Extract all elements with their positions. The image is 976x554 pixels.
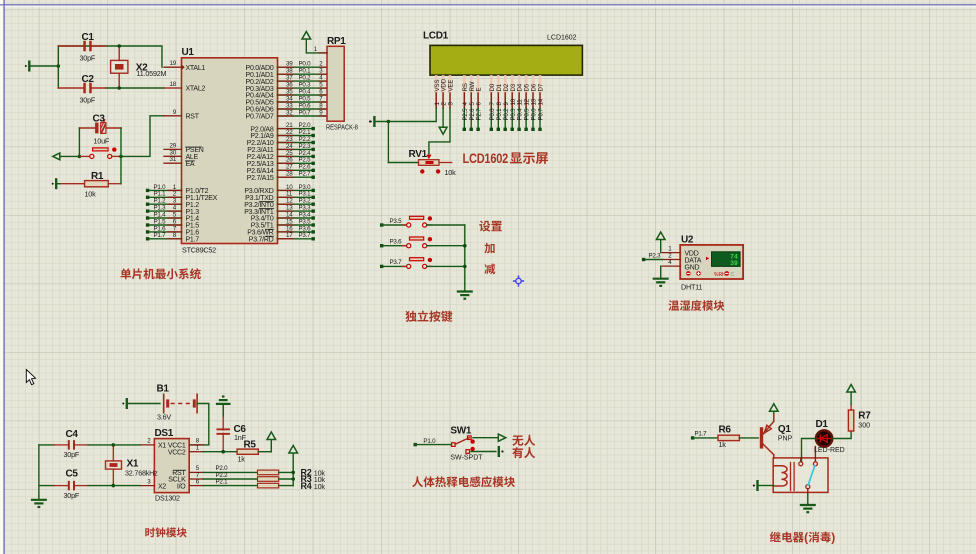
wire R7 to power (850, 405, 852, 411)
ground terminal left of LCD (373, 116, 375, 127)
pin P0.0 wire to RP1 (278, 66, 328, 68)
RP1 pin 1 wire to power (306, 39, 327, 53)
pin P1.5 wire and terminal (148, 224, 182, 226)
svg-text:33: 33 (286, 102, 293, 109)
svg-text:1k: 1k (719, 440, 727, 449)
power arrow above U2 (656, 232, 665, 240)
capacitor C5 (39, 485, 54, 487)
wire emitter to power (773, 414, 775, 422)
relay coil (774, 466, 782, 486)
svg-text:P1.4: P1.4 (186, 216, 200, 223)
pin P0.4 wire to RP1 (278, 94, 328, 96)
pin P0.7 wire to RP1 (278, 115, 328, 117)
overline INT0 (260, 201, 274, 203)
svg-text:P0.7/AD7: P0.7/AD7 (246, 114, 274, 121)
LCD pin D4 (518, 75, 521, 94)
LCD pin VSS (435, 75, 438, 94)
pin P1.4 wire and terminal (148, 217, 182, 219)
svg-text:DS1302: DS1302 (155, 494, 180, 503)
svg-text:14: 14 (538, 98, 545, 105)
svg-text:VDD: VDD (685, 250, 699, 257)
mouse cursor (26, 370, 35, 385)
pin P0.5 wire to RP1 (278, 101, 328, 103)
svg-text:P3.5: P3.5 (390, 218, 403, 225)
svg-text:X2: X2 (158, 483, 166, 490)
sheet border frame (0, 0, 3, 554)
svg-text:U1: U1 (182, 47, 195, 58)
wire VSS down to ground rail (376, 108, 436, 121)
capacitor C6 (216, 428, 230, 430)
temperature sensor U2 body (680, 245, 743, 279)
svg-text:): ) (831, 530, 835, 544)
svg-text:P3.7/RD: P3.7/RD (249, 237, 274, 244)
svg-text:RP1: RP1 (327, 36, 346, 47)
svg-text:P0.2/AD2: P0.2/AD2 (246, 79, 274, 86)
svg-text:P1.7: P1.7 (695, 431, 708, 438)
pin RST (164, 115, 182, 117)
label 时钟模块 (145, 527, 155, 537)
svg-text:P1.7: P1.7 (154, 232, 167, 239)
pin P2.0 wire and terminal (278, 128, 314, 130)
svg-text:37: 37 (286, 75, 293, 82)
pin P0.2 wire to RP1 (278, 80, 328, 82)
DS1 output wires to pull-ups (203, 471, 258, 473)
pin PSEN (164, 148, 182, 150)
svg-text:P3.4: P3.4 (299, 211, 312, 218)
resistor R5 (203, 451, 237, 453)
svg-text:P0.5: P0.5 (299, 95, 312, 102)
svg-text:XTAL2: XTAL2 (186, 86, 206, 93)
svg-text:C: C (731, 272, 735, 278)
capacitor C4 (39, 444, 54, 446)
svg-text:(: ( (804, 530, 808, 544)
pin P1.3 wire and terminal (148, 210, 182, 212)
wire rail down to RV1 (387, 122, 389, 163)
pin P0.6 wire to RP1 (278, 108, 328, 110)
bar terminal 有人 (498, 446, 500, 457)
buttons common wire to ground (464, 225, 466, 284)
LCD pin VEE (449, 75, 452, 94)
svg-text:LCD1: LCD1 (423, 31, 449, 42)
ground under U2 (653, 278, 669, 280)
pin P0.3 wire to RP1 (278, 87, 328, 89)
terminal arrow 无人 (498, 434, 505, 441)
label 人体热释电感应模块 (412, 476, 423, 487)
svg-text:17: 17 (286, 232, 293, 239)
svg-text:P0.0/AD0: P0.0/AD0 (246, 65, 274, 72)
power arrow above RP1 (302, 32, 311, 40)
pin XTAL1 (164, 66, 182, 68)
label 有人 (512, 447, 523, 458)
svg-text:D1: D1 (816, 419, 829, 430)
svg-text:P3.7: P3.7 (390, 259, 403, 266)
svg-text:VEE: VEE (448, 80, 455, 92)
label 减 (484, 264, 495, 275)
svg-text:D7: D7 (538, 83, 545, 91)
U2 bottom icons (686, 271, 691, 276)
pin EA (164, 162, 182, 164)
svg-text:P2.7: P2.7 (299, 171, 312, 178)
resistors R2 R3 R4 (258, 470, 279, 475)
power arrow right of R5 (270, 440, 272, 452)
svg-text:14: 14 (286, 211, 293, 218)
pin P2.5 wire and terminal (278, 162, 314, 164)
push button P3.5 (402, 224, 407, 226)
svg-text:P2.7: P2.7 (476, 108, 483, 121)
svg-text:P0.2: P0.2 (299, 75, 312, 82)
svg-text:1k: 1k (238, 454, 246, 463)
relay core (790, 463, 792, 491)
wire P1.7 to R6 (693, 437, 718, 439)
svg-text:30pF: 30pF (64, 450, 80, 459)
crystal X2 (111, 60, 128, 73)
pull-up common wire to power (292, 453, 294, 486)
pin P1.0 wire and terminal (148, 189, 182, 191)
pin P2.1 wire and terminal (278, 135, 314, 137)
pin P1.7 wire and terminal (148, 238, 182, 240)
node junction X2 bottom (118, 73, 120, 88)
LED D1 (816, 430, 832, 446)
svg-text:P0.6: P0.6 (531, 108, 538, 121)
wire P1.0 to switch (415, 444, 451, 446)
svg-text:P2.5: P2.5 (299, 157, 312, 164)
ground terminal top-left (28, 61, 30, 72)
svg-text:Q1: Q1 (778, 424, 791, 435)
svg-text:10k: 10k (445, 168, 457, 177)
LCD pin RS (463, 75, 466, 94)
capacitor C1 (58, 45, 84, 47)
pin P3.0 wire and terminal (278, 189, 314, 191)
svg-text:XTAL1: XTAL1 (186, 65, 206, 72)
svg-text:P0.5/AD5: P0.5/AD5 (246, 100, 274, 107)
svg-text:D0: D0 (489, 83, 496, 91)
svg-text:DS1: DS1 (155, 428, 174, 439)
svg-text:X1: X1 (158, 443, 166, 450)
push button P3.6 (402, 245, 407, 247)
overline INT1 (260, 208, 274, 210)
wire switch NC to bar terminal (471, 451, 496, 453)
svg-text:P2.1: P2.1 (216, 478, 229, 485)
svg-text:32.768kHz: 32.768kHz (125, 468, 158, 477)
svg-text:E: E (476, 88, 483, 92)
wire C1 row to XTAL1 (58, 46, 162, 67)
svg-text:R7: R7 (858, 410, 871, 421)
svg-text:11.0592M: 11.0592M (137, 69, 167, 78)
LCD pin VDD (442, 75, 445, 94)
clock chip DS1 body (154, 439, 189, 493)
wire switch NO to arrow (473, 437, 498, 439)
svg-text:LCD1602: LCD1602 (547, 35, 577, 42)
wire C3 right leg down to node (120, 128, 122, 156)
svg-text:RST: RST (186, 114, 200, 121)
svg-text:DATA: DATA (685, 257, 702, 264)
wire C2 row to XTAL2 (106, 87, 164, 89)
overline WR (266, 228, 274, 230)
LCD pin D0 (490, 75, 493, 94)
pin P3.6 wire and terminal (278, 231, 314, 233)
svg-text:C4: C4 (66, 429, 79, 440)
DS1 pin stubs (140, 444, 154, 446)
svg-text:13: 13 (531, 98, 538, 105)
ground terminal left of R1 (55, 178, 57, 189)
pin P2.7 wire and terminal (278, 176, 314, 178)
svg-text:P2.5/A13: P2.5/A13 (247, 161, 274, 168)
wire VEE to RV1 wiper (429, 108, 450, 154)
button P3.5 wire left (380, 223, 383, 226)
svg-text:10k: 10k (314, 482, 326, 491)
svg-text:C5: C5 (66, 468, 79, 479)
svg-text:P0.0: P0.0 (489, 108, 496, 121)
svg-text:D2: D2 (503, 83, 510, 91)
pin P2.2 wire and terminal (278, 142, 314, 144)
svg-text:R4: R4 (301, 481, 312, 491)
terminal P1.0 (414, 443, 417, 446)
LCD pin D5 (525, 75, 528, 94)
svg-text:P3.4/T0: P3.4/T0 (251, 216, 274, 223)
terminal P1.7 (691, 436, 694, 439)
svg-text:R6: R6 (719, 424, 732, 435)
pin P2.6 wire and terminal (278, 169, 314, 171)
svg-text:10uF: 10uF (94, 137, 110, 146)
pin ALE (164, 155, 182, 157)
svg-text:P2.1: P2.1 (299, 129, 312, 136)
svg-text:P1.4: P1.4 (154, 211, 167, 218)
capacitor C2 (58, 87, 84, 89)
svg-text:3.6V: 3.6V (157, 412, 171, 421)
U2 display (712, 252, 741, 267)
svg-text:C2: C2 (82, 74, 95, 85)
LCD1602 screen (430, 45, 582, 75)
capacitor C3 electrolytic (79, 127, 94, 129)
svg-text:26: 26 (286, 157, 293, 164)
svg-text:P3.6: P3.6 (390, 239, 403, 246)
svg-text:31: 31 (170, 156, 177, 163)
svg-text:GND: GND (685, 264, 700, 271)
potentiometer RV1 (388, 162, 418, 164)
svg-text:D6: D6 (531, 83, 538, 91)
pin XTAL2 (164, 87, 182, 89)
button P3.5 wire right (427, 224, 465, 226)
pin P2.3 wire and terminal (278, 148, 314, 150)
wire relay common to ground (807, 489, 809, 494)
transistor Q1 PNP (760, 427, 763, 448)
relay contacts (800, 458, 802, 462)
svg-text:P2.7/A15: P2.7/A15 (247, 175, 274, 182)
resistor R7 (848, 410, 853, 431)
svg-text:P0.6/AD6: P0.6/AD6 (246, 107, 274, 114)
svg-text:PNP: PNP (778, 435, 793, 442)
svg-text:I/O: I/O (177, 483, 186, 490)
svg-text:30pF: 30pF (80, 96, 96, 105)
push button P3.7 (402, 265, 407, 267)
svg-text:32: 32 (286, 109, 293, 116)
wire reset net to RST pin (121, 116, 164, 157)
ground left of relay coil (756, 480, 758, 491)
svg-text:C3: C3 (93, 113, 106, 124)
label 独立按键 (405, 311, 416, 322)
pin P3.2 wire and terminal (278, 203, 314, 205)
wire collector into relay (773, 455, 775, 466)
svg-text:SW1: SW1 (450, 426, 472, 437)
svg-text:R5: R5 (244, 439, 257, 450)
resistor R6 (718, 435, 739, 440)
svg-text:11: 11 (517, 99, 524, 106)
svg-text:22: 22 (286, 129, 293, 136)
pin P1.1 wire and terminal (148, 196, 182, 198)
pin P3.7 wire and terminal (278, 238, 314, 240)
svg-text:LED-RED: LED-RED (814, 447, 845, 454)
svg-text:P0.7: P0.7 (299, 109, 312, 116)
LCD pin D6 (532, 75, 535, 94)
svg-text:RESPACK-8: RESPACK-8 (326, 124, 358, 131)
terminal arrow left of reset (53, 153, 60, 160)
svg-text:10k: 10k (85, 190, 97, 199)
U2 pin 1 VDD wire to power (662, 252, 680, 254)
crystal X1 (106, 461, 122, 469)
svg-text:C1: C1 (82, 32, 95, 43)
svg-text:P0.2: P0.2 (503, 108, 510, 121)
overline RD (266, 235, 274, 237)
pin P1.6 wire and terminal (148, 231, 182, 233)
MCU section label 单片机最小系统 (121, 268, 132, 279)
button P3.6 wire right (427, 245, 465, 247)
svg-text:LCD1602: LCD1602 (463, 150, 509, 166)
pin P1.2 wire and terminal (148, 203, 182, 205)
label 设置 (479, 221, 490, 232)
U2 pin 2 DATA wire to terminal P2.3 (662, 259, 680, 261)
svg-text:%RH: %RH (714, 272, 726, 278)
button P3.7 wire left (380, 265, 383, 268)
LCD pin D3 (511, 75, 514, 94)
LCD pin E (477, 75, 480, 94)
svg-text:35: 35 (286, 88, 293, 95)
svg-text:P0.0: P0.0 (299, 61, 312, 68)
wire D1 to relay contact (802, 439, 816, 462)
svg-text:P2.3: P2.3 (299, 143, 312, 150)
junction VSS rail (387, 120, 391, 124)
inverted ground above C6 (216, 403, 231, 405)
svg-text:RV1: RV1 (409, 149, 428, 160)
svg-text:P2.3: P2.3 (649, 252, 662, 259)
svg-text:P2.3/A11: P2.3/A11 (247, 147, 274, 154)
pin P3.4 wire and terminal (278, 217, 314, 219)
ground under buttons (457, 290, 473, 292)
button P3.6 wire left (380, 244, 383, 247)
svg-text:U2: U2 (681, 234, 694, 245)
pin P2.4 wire and terminal (278, 155, 314, 157)
wire node column right of button (120, 156, 122, 183)
svg-text:P1.7: P1.7 (186, 237, 200, 244)
wire C3 left leg down (78, 128, 80, 156)
svg-text:VCC2: VCC2 (168, 449, 186, 456)
wire D1 to R7 (832, 431, 851, 439)
label 无人 (512, 436, 523, 446)
microcontroller U1 body (182, 58, 278, 244)
label 加 (484, 243, 494, 253)
svg-text:300: 300 (858, 423, 870, 430)
power arrow down from VDD (442, 108, 444, 126)
svg-text:STC89C52: STC89C52 (182, 246, 216, 255)
svg-text:SW-SPDT: SW-SPDT (450, 455, 483, 462)
svg-text:P0.4/AD4: P0.4/AD4 (246, 93, 274, 100)
svg-text:P3.7: P3.7 (299, 232, 312, 239)
svg-text:19: 19 (170, 60, 177, 67)
pin P0.1 wire to RP1 (278, 73, 328, 75)
svg-text:EA: EA (186, 161, 195, 168)
reset button (79, 155, 89, 157)
U2 pin 4 GND wire to ground (662, 265, 680, 267)
svg-text:34: 34 (286, 95, 293, 102)
svg-text:DHT11: DHT11 (681, 283, 702, 292)
svg-text:P0.4: P0.4 (299, 88, 312, 95)
pin P3.1 wire and terminal (278, 196, 314, 198)
svg-text:P0.4: P0.4 (517, 108, 524, 121)
svg-text:39: 39 (730, 260, 738, 267)
wire battery to VCC1 (189, 404, 209, 445)
label 温湿度模块 (668, 300, 679, 310)
svg-text:B1: B1 (157, 384, 170, 395)
relay blade (808, 466, 815, 485)
LCD pin D1 (497, 75, 500, 94)
resistor R1 (60, 183, 85, 185)
svg-text:P0.7: P0.7 (538, 108, 545, 121)
svg-text:18: 18 (170, 81, 177, 88)
svg-text:24: 24 (286, 143, 293, 150)
svg-text:D4: D4 (517, 83, 524, 91)
resistor pack RP1 (327, 46, 344, 121)
svg-text:R1: R1 (91, 171, 104, 182)
svg-text:P0.6: P0.6 (299, 102, 312, 109)
LCD pin D7 (539, 75, 542, 94)
svg-text:30pF: 30pF (80, 54, 96, 63)
pin P3.5 wire and terminal (278, 224, 314, 226)
relay body (773, 458, 828, 493)
svg-text:P2.1/A9: P2.1/A9 (250, 133, 274, 140)
LCD pin RW (470, 75, 473, 94)
wire X1 row to DS1 pins (113, 444, 140, 446)
pin P3.3 wire and terminal (278, 210, 314, 212)
label 继电器(消毒) (770, 532, 781, 542)
svg-text:28: 28 (286, 171, 293, 178)
button P3.7 wire right (427, 265, 465, 267)
wire left column C1-C2 (57, 46, 59, 88)
svg-text:30pF: 30pF (64, 491, 80, 500)
wire C4-C5 left column to ground (38, 445, 40, 496)
node junction X2 top (118, 46, 120, 60)
blue origin marker (513, 275, 524, 286)
LCD pin D2 (504, 75, 507, 94)
svg-text:39: 39 (286, 61, 293, 68)
